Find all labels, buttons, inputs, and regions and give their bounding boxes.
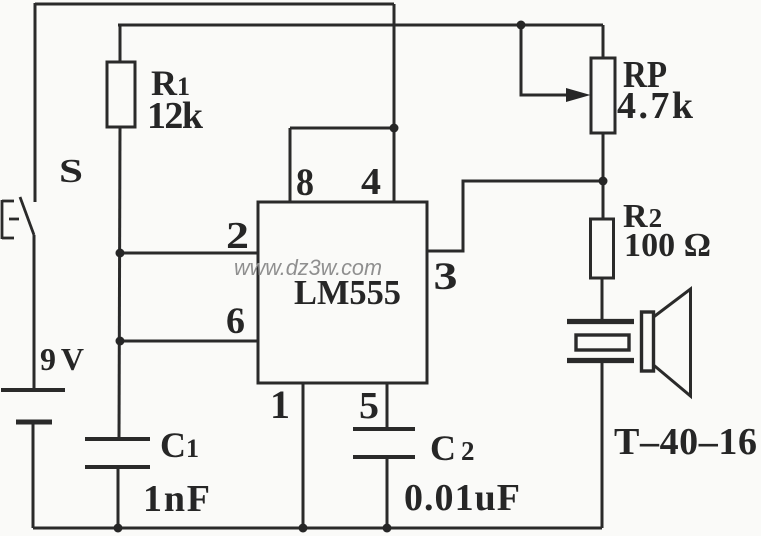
wire pin5 to C2 (386, 383, 389, 429)
svg-text:3: 3 (434, 255, 458, 298)
svg-text:6: 6 (226, 301, 245, 342)
speaker B T-40-16 symbol (567, 289, 691, 396)
svg-text:C2: C2 (430, 428, 475, 468)
wire switch to battery (33, 235, 36, 390)
svg-text:1nF: 1nF (143, 478, 210, 520)
wire pin8 stub (289, 128, 292, 202)
capacitor C1 plates (85, 439, 150, 467)
wire top outer rail (35, 3, 394, 6)
wire pin1 to bottom rail (302, 383, 305, 528)
svg-text:1: 1 (270, 382, 290, 427)
junction node pin1 bottom rail (299, 524, 308, 533)
wire RP bottom to R2 top (602, 133, 605, 219)
junction node bridge pin4 (390, 124, 399, 133)
wire pin4 vertical (393, 4, 396, 202)
wire R2 to speaker (601, 278, 604, 321)
wire R1 top drop (119, 25, 122, 62)
wire bottom rail (33, 527, 602, 530)
junction node C2 bottom rail (383, 524, 392, 533)
svg-text:4: 4 (361, 161, 381, 203)
svg-text:C1: C1 (160, 425, 199, 465)
wire R1 bottom to C1 top (119, 127, 120, 439)
wire RP wiper tap (521, 25, 569, 95)
svg-text:0.01uF: 0.01uF (404, 477, 520, 519)
junction node pin3 R2 (599, 177, 608, 186)
wire pin2 horizontal (120, 252, 258, 255)
svg-text:5: 5 (359, 385, 379, 427)
wire pin8 pin4 bridge (290, 127, 394, 130)
wire battery minus to bottom rail (32, 422, 35, 528)
svg-text:2: 2 (226, 215, 249, 257)
svg-text:www.dz3w.com: www.dz3w.com (234, 255, 382, 280)
wire pin3 to R2 node (427, 181, 603, 251)
svg-text:S: S (59, 153, 83, 190)
switch S pushbutton (2, 197, 34, 239)
wire RP top (602, 25, 605, 58)
resistor R1 (107, 62, 135, 127)
wire top inner rail (118, 24, 603, 27)
wire C1 to bottom rail (117, 467, 120, 528)
wire speaker to bottom rail (601, 360, 604, 528)
svg-text:12k: 12k (147, 95, 204, 137)
wire left vertical battery plus to switch (34, 3, 37, 202)
svg-text:4.7k: 4.7k (617, 85, 694, 127)
battery BT 9V plates (1, 390, 65, 422)
RP wiper arrow head (566, 88, 591, 102)
resistor R2 (591, 219, 614, 278)
junction node wiper tap top rail (517, 21, 526, 30)
svg-text:100 Ω: 100 Ω (624, 227, 711, 264)
IC U1 LM555 body (258, 202, 427, 383)
capacitor C2 plates (353, 429, 415, 457)
svg-text:9V: 9V (40, 341, 84, 377)
svg-text:T–40–16: T–40–16 (614, 421, 757, 463)
svg-text:8: 8 (296, 161, 314, 204)
potentiometer RP body (591, 58, 615, 133)
junction node pin6 (116, 337, 125, 346)
wire C2 to bottom rail (386, 457, 389, 528)
junction node pin2 (116, 249, 125, 258)
wire pin6 horizontal (120, 340, 258, 343)
junction node C1 bottom rail (114, 524, 123, 533)
